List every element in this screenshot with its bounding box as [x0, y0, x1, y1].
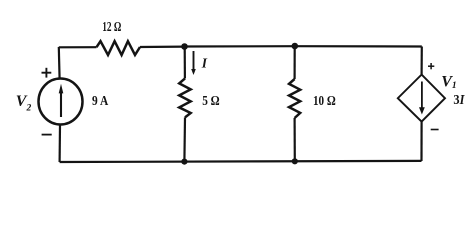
wire: top rail node B to top-right corner [295, 45, 422, 47]
wire: top rail from top-left corner to 12-ohm left terminal [59, 46, 97, 48]
svg-text:V2: V2 [16, 93, 32, 113]
node B (junction dot, top of 10-ohm branch) [292, 43, 299, 50]
label: plus sign of V2 [42, 68, 52, 78]
node C (junction dot, bottom of 5-ohm branch) [181, 159, 187, 165]
svg-text:9 A: 9 A [92, 94, 109, 109]
wire: 5-ohm bottom terminal to bottom rail node C [183, 117, 186, 161]
wire: left vertical from top-left corner down to current source top [58, 47, 61, 79]
node D (junction dot, bottom of 10-ohm branch) [292, 158, 298, 164]
svg-text:5 Ω: 5 Ω [202, 94, 220, 109]
node A (junction dot, top of 5-ohm branch) [181, 43, 188, 50]
svg-text:V1: V1 [441, 73, 456, 91]
wire: top-right corner down to dependent source top [421, 47, 423, 75]
wire: node A down to 5-ohm top terminal [184, 47, 186, 79]
resistor 5-ohm (vertical zigzag) [179, 78, 191, 117]
current arrow I (branch current into 5-ohm) [191, 51, 196, 75]
svg-text:I: I [201, 55, 208, 70]
wire: top rail node A to node B [185, 45, 295, 47]
svg-text:12 Ω: 12 Ω [102, 20, 121, 35]
current source 9A (circle with up arrow) [39, 79, 83, 125]
svg-text:10 Ω: 10 Ω [313, 94, 336, 109]
wire: dependent source bottom to bottom-right corner [420, 122, 422, 161]
svg-text:3I: 3I [453, 93, 464, 108]
resistor 10-ohm (vertical zigzag) [289, 79, 300, 118]
wire: 12-ohm right terminal to node A [140, 45, 185, 48]
wire: bottom rail from bottom-left corner to bottom-right corner [60, 161, 422, 162]
dependent source 3I (diamond with down arrow) [398, 75, 445, 122]
label: plus sign of V1 [428, 63, 434, 69]
resistor 12-ohm (horizontal zigzag on top rail) [97, 41, 141, 55]
label: minus sign of V1 [431, 129, 439, 131]
wire: current source bottom to bottom-left corner [58, 125, 61, 162]
wire: node B down to 10-ohm top terminal [294, 46, 296, 79]
wire: 10-ohm bottom terminal to bottom rail node D [294, 118, 296, 161]
label: minus sign of V2 [42, 134, 52, 136]
